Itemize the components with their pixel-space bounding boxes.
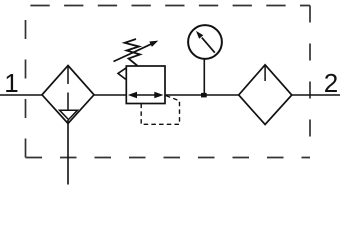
pilot line (dashed pressure feedback) bbox=[141, 96, 179, 125]
port 2 label bbox=[324, 68, 338, 98]
filter / water separator F1 (diamond body) bbox=[42, 66, 94, 124]
regulator flow path arrows bbox=[128, 92, 164, 99]
enclosure dashed boundary: left edge bbox=[25, 6, 27, 158]
regulator adjustable spring (zigzag) bbox=[125, 39, 140, 66]
filter manual drain (open triangle) bbox=[60, 110, 78, 119]
pressure gauge G1 (dial) bbox=[188, 25, 222, 59]
enclosure dashed boundary: top edge bbox=[26, 5, 311, 7]
lubricator L1 (diamond body) bbox=[239, 65, 292, 125]
svg-text:2: 2 bbox=[324, 68, 338, 98]
enclosure dashed boundary: bottom edge bbox=[26, 157, 311, 159]
port 1 label bbox=[4, 68, 18, 98]
svg-text:1: 1 bbox=[4, 68, 18, 98]
regulator relief vent mark bbox=[118, 68, 126, 79]
spring adjustment arrow bbox=[114, 41, 159, 62]
pressure regulator U1 (body box) bbox=[126, 66, 165, 104]
wire: gauge stem bbox=[203, 60, 205, 96]
enclosure dashed boundary: right edge bbox=[309, 6, 311, 158]
wire: condensate drain line bbox=[67, 120, 69, 185]
junction node (gauge tap) bbox=[201, 93, 207, 98]
wire: main flow line from port 1 to port 2 bbox=[0, 94, 340, 96]
